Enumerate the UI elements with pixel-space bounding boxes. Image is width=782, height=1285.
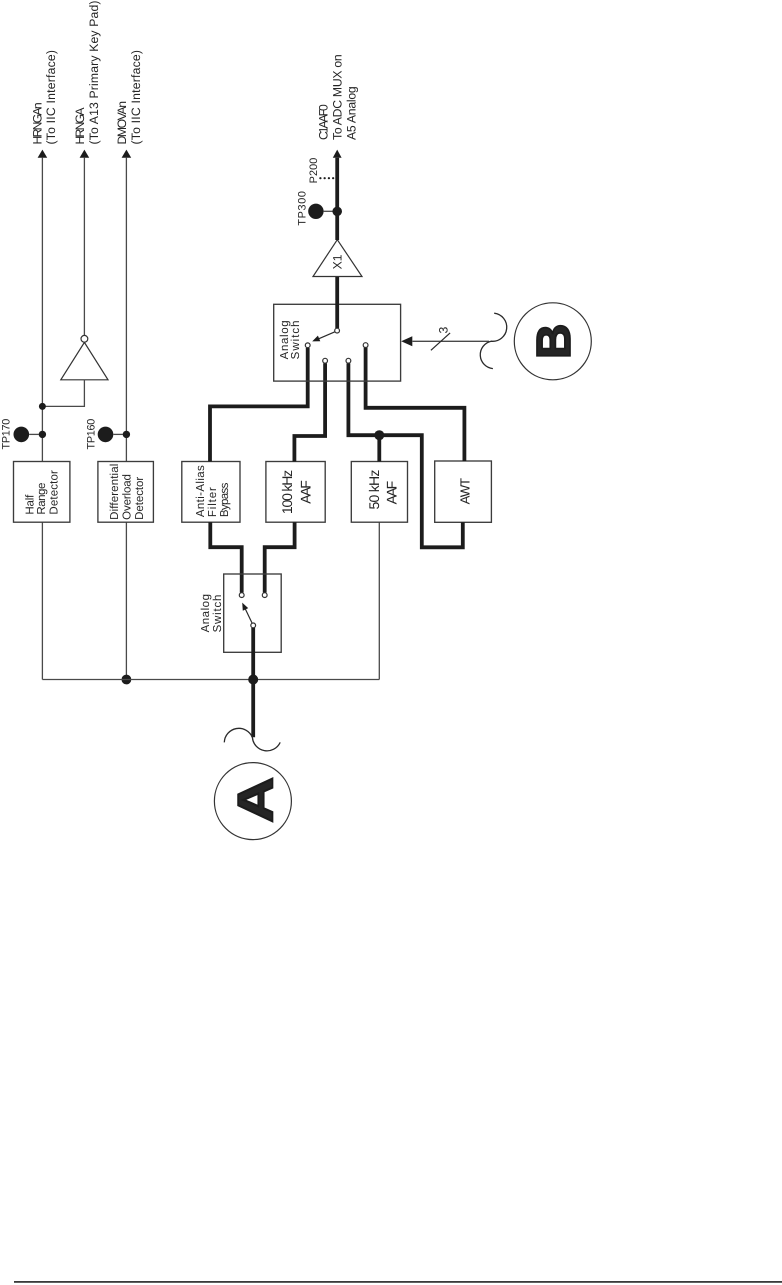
wire X1 output (C1AAF0) — [335, 158, 339, 240]
block upper Analog Switch U2 — [274, 304, 401, 381]
svg-text:(To IIC Interface): (To IIC Interface) — [129, 50, 143, 145]
bus wire (common return) — [42, 679, 379, 681]
arrowhead DMOVAn — [122, 150, 132, 158]
amplifier X1 — [313, 240, 362, 277]
switch arm upper — [319, 332, 335, 339]
break squiggle A — [224, 728, 280, 751]
svg-text:DMOVAn: DMOVAn — [115, 101, 129, 145]
wire 50 kHz AAF bottom to bus — [378, 522, 380, 679]
svg-text:Range: Range — [36, 483, 48, 515]
break squiggle B — [480, 313, 506, 368]
svg-text:(To A13 Primary Key Pad): (To A13 Primary Key Pad) — [87, 1, 101, 145]
block AWT — [435, 461, 492, 522]
svg-text:Detector: Detector — [49, 470, 61, 515]
footer rule — [14, 1281, 782, 1283]
wire Differential Overload Detector to bus — [125, 522, 127, 679]
junction node inverter input on HRNGAn — [39, 403, 46, 410]
svg-text:TP300: TP300 — [297, 191, 309, 226]
sheet connector A — [214, 763, 291, 840]
svg-text:AAF: AAF — [384, 481, 400, 505]
svg-text:100 kHz: 100 kHz — [279, 470, 295, 514]
arrowhead HRNGA — [80, 150, 90, 158]
svg-text:Switch: Switch — [290, 320, 302, 359]
test point TP300 — [308, 204, 323, 219]
test point TP170 — [13, 427, 29, 443]
block Anti-Alias Filter Bypass — [182, 462, 240, 523]
svg-text:Switch: Switch — [212, 595, 224, 633]
wire switch pole 3 to node J1 — [348, 363, 379, 435]
arrowhead HRNGAn — [38, 150, 48, 158]
svg-text:AAF: AAF — [298, 480, 314, 504]
block 50 kHz AAF — [351, 462, 407, 523]
test point TP160 — [98, 427, 114, 443]
svg-text:A: A — [228, 777, 284, 823]
svg-text:3: 3 — [436, 327, 450, 334]
svg-text:HRNGA: HRNGA — [73, 107, 87, 145]
block 100 kHz AAF — [266, 462, 325, 523]
arrowhead C1AAF0 — [333, 150, 342, 158]
svg-text:C1AAF0: C1AAF0 — [316, 104, 330, 140]
svg-text:AWT: AWT — [458, 478, 473, 505]
svg-text:(To IIC Interface): (To IIC Interface) — [44, 50, 58, 145]
svg-text:HRNGAn: HRNGAn — [30, 102, 44, 144]
inverter U1 — [61, 342, 108, 379]
sheet connector B — [514, 303, 591, 380]
wire Anti-Alias output to lower switch contact — [210, 522, 241, 592]
wire HRNGA net (inverter output to arrow) — [83, 158, 85, 336]
svg-text:Analog: Analog — [200, 594, 212, 632]
wire switch pole 1 to Anti-Alias input — [210, 348, 308, 462]
wire switch pole 4 to AWT input — [366, 348, 465, 462]
svg-text:Filter: Filter — [207, 487, 219, 517]
svg-text:A5 Analog: A5 Analog — [344, 86, 358, 140]
svg-text:To ADC MUX on: To ADC MUX on — [330, 54, 344, 140]
svg-text:TP170: TP170 — [0, 419, 12, 450]
block lower Analog Switch U3 — [224, 574, 282, 652]
wire node J1 to 50 kHz AAF input — [377, 435, 381, 461]
contact pins upper switch — [305, 343, 310, 348]
connector P200 mark — [320, 177, 336, 179]
svg-text:Overload: Overload — [121, 474, 133, 520]
svg-text:B: B — [528, 323, 581, 359]
junction node bus tap — [248, 675, 258, 685]
wire inverter input — [42, 380, 84, 407]
wire HRNGAn net — [41, 158, 43, 462]
wire 100 kHz AAF output to lower switch contact — [265, 522, 295, 592]
svg-text:Anti-Alias: Anti-Alias — [195, 465, 207, 517]
block Differential Overload Detector — [98, 462, 153, 523]
wire DMOVAn net — [125, 158, 127, 462]
wire Half Range Detector to ground bus — [41, 522, 43, 679]
svg-text:Differential: Differential — [109, 464, 121, 520]
wire common contact to X1 input — [335, 277, 339, 329]
svg-text:TP160: TP160 — [86, 419, 98, 450]
arrowhead into switch — [401, 336, 412, 346]
block Half Range Detector — [14, 462, 70, 523]
svg-text:Half: Half — [25, 494, 37, 515]
svg-text:P200: P200 — [308, 158, 320, 184]
svg-text:Bypass: Bypass — [219, 482, 231, 517]
wire connector B to switch (bus of 3) — [413, 340, 490, 342]
wire lower switch common to connector A — [251, 628, 255, 737]
bus width slash — [431, 333, 450, 350]
svg-text:Detector: Detector — [134, 477, 146, 520]
switch arm lower — [245, 609, 252, 623]
wire switch pole 2 to 100 kHz AAF input — [294, 363, 325, 461]
svg-text:50 kHz: 50 kHz — [366, 470, 382, 510]
junction node Differential on bus — [122, 675, 132, 685]
junction node J1 — [374, 430, 384, 440]
contact pins lower switch — [239, 593, 244, 598]
wire node J1 to AWT output side — [379, 435, 463, 547]
svg-text:X1: X1 — [331, 254, 345, 269]
